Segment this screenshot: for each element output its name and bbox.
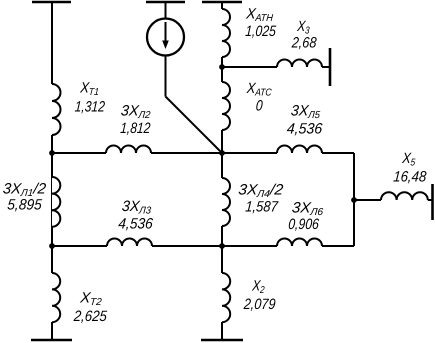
wire center bus mid bbox=[221, 130, 223, 178]
inductor 3XL6 bbox=[277, 239, 322, 246]
inductor 3XL3 bbox=[107, 239, 152, 246]
current source arrow bbox=[165, 22, 167, 41]
wire left bus middle bbox=[51, 135, 53, 273]
svg-text:4,536: 4,536 bbox=[286, 121, 324, 137]
terminal bar X3 bbox=[329, 48, 332, 86]
inductor 3XL5 bbox=[277, 146, 322, 153]
node D (222,153) bbox=[219, 150, 225, 156]
svg-text:5,895: 5,895 bbox=[7, 197, 44, 214]
svg-text:2,68: 2,68 bbox=[290, 33, 317, 50]
node C (222,67) bbox=[219, 64, 225, 70]
terminal bar bottom-center bbox=[201, 339, 243, 342]
terminal bar top-center bbox=[202, 1, 242, 4]
inductor X2 bbox=[222, 273, 230, 322]
inductor 3XL1/2 bbox=[52, 177, 60, 227]
svg-text:XАТС: XАТС bbox=[245, 79, 273, 98]
svg-text:2,625: 2,625 bbox=[72, 307, 107, 324]
svg-text:0,906: 0,906 bbox=[288, 216, 320, 232]
node E (222,246) bbox=[219, 243, 225, 249]
wire X3 to bar bbox=[322, 66, 330, 68]
node F (354,200) bbox=[351, 197, 357, 203]
svg-text:1,812: 1,812 bbox=[120, 120, 152, 137]
wire center bus bbox=[221, 57, 223, 82]
wire row1 right bbox=[322, 152, 354, 154]
wire center bus top bbox=[221, 2, 223, 9]
svg-text:16,48: 16,48 bbox=[393, 168, 427, 185]
inductor X3 bbox=[277, 60, 322, 68]
terminal bar top-left bbox=[32, 1, 71, 4]
node B (52,246) bbox=[49, 243, 55, 249]
terminal bar bottom-left bbox=[31, 339, 72, 342]
wire below current source bbox=[165, 56, 167, 97]
inductor 3XL2 bbox=[106, 146, 151, 153]
svg-text:3XЛ3: 3XЛ3 bbox=[121, 199, 153, 217]
svg-text:3XЛ2: 3XЛ2 bbox=[120, 103, 152, 121]
wire center bus bottom bbox=[221, 322, 223, 340]
svg-text:1,312: 1,312 bbox=[74, 98, 106, 115]
wire row1 left bbox=[52, 152, 106, 154]
wire to current source bbox=[165, 2, 167, 19]
node A (52,153) bbox=[49, 150, 55, 156]
wire X5 to bar bbox=[428, 199, 432, 201]
wire node F to X5 bbox=[354, 199, 381, 201]
wire row2 mid bbox=[152, 245, 277, 247]
wire right bus bbox=[353, 153, 355, 246]
svg-text:1,587: 1,587 bbox=[245, 198, 280, 215]
svg-text:X2: X2 bbox=[251, 277, 266, 295]
svg-text:4,536: 4,536 bbox=[118, 216, 155, 233]
wire left bus upper bbox=[51, 2, 53, 84]
wire row2 right bbox=[322, 245, 354, 247]
wire node C to X3 bbox=[222, 66, 277, 68]
wire diagonal to center node bbox=[166, 97, 223, 154]
svg-text:3XЛ5: 3XЛ5 bbox=[290, 103, 321, 121]
svg-text:2,079: 2,079 bbox=[242, 295, 276, 312]
svg-text:XАТН: XАТН bbox=[245, 6, 274, 24]
svg-text:1,025: 1,025 bbox=[245, 23, 277, 39]
svg-text:X5: X5 bbox=[401, 149, 417, 168]
svg-text:XТ2: XТ2 bbox=[79, 290, 104, 308]
current source circle bbox=[147, 19, 184, 56]
svg-text:XТ1: XТ1 bbox=[79, 79, 100, 97]
inductor XATH bbox=[222, 9, 230, 57]
inductor XT1 bbox=[52, 84, 61, 135]
inductor XATC bbox=[222, 82, 230, 130]
svg-text:0: 0 bbox=[255, 97, 263, 113]
inductor 3XL4/2 bbox=[222, 178, 230, 226]
terminal bar top-middle bbox=[146, 1, 185, 4]
wire left bus lower bbox=[51, 322, 53, 340]
inductor XT2 bbox=[52, 273, 60, 322]
wire center bus low bbox=[221, 226, 223, 273]
terminal bar X5 bbox=[431, 184, 434, 220]
wire row2 left bbox=[52, 245, 107, 247]
inductor X5 bbox=[381, 192, 428, 200]
wire row1 mid bbox=[151, 152, 277, 154]
